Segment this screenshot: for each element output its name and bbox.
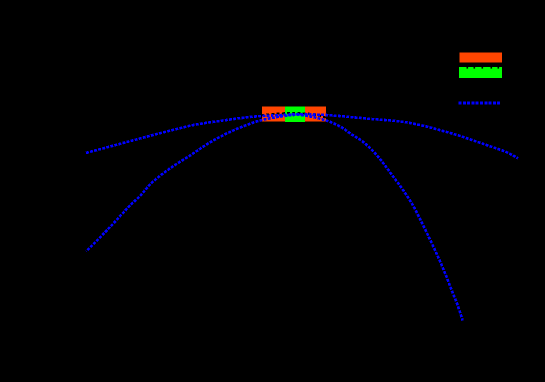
curve narrow (blue dashed, steep asymmetric) <box>86 115 463 321</box>
signal band orange (left+right segments) <box>262 107 326 122</box>
legend key box orange <box>460 53 503 63</box>
legend key box green <box>459 67 502 78</box>
legend text descender notches over green box <box>467 67 500 69</box>
legend key sample blue dashed line <box>459 101 501 104</box>
signal band green (central segment) <box>285 107 305 123</box>
exact curve (black dashes visible only over the band) <box>256 113 332 121</box>
curve broad (blue dashed, shallow parabola) <box>86 114 518 158</box>
